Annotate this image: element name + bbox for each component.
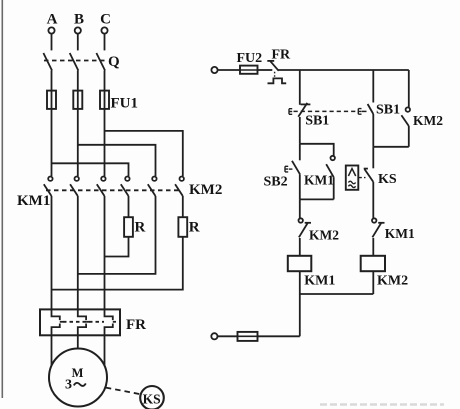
- wire B fuse down to contact 2: [77, 109, 79, 176]
- page left border line: [1, 0, 3, 398]
- svg-text:FU1: FU1: [111, 96, 139, 112]
- svg-text:FR: FR: [272, 48, 292, 63]
- wire down to KM2 interlock: [299, 199, 301, 218]
- FR linkage dashed: [63, 321, 104, 323]
- wire down to KS contact: [372, 147, 374, 169]
- svg-text:KM2: KM2: [413, 113, 443, 128]
- contactor KM1 main contact 3: [97, 177, 106, 197]
- rejoin wire SB1/KM2: [373, 146, 409, 148]
- contactor KM1 main contact 1: [44, 177, 53, 197]
- svg-text:KS: KS: [378, 172, 397, 187]
- wire bottom rail down: [299, 294, 301, 336]
- FR heater element B: [78, 309, 86, 335]
- switch Q linkage dashed: [44, 60, 106, 62]
- FR NC contact blade: [270, 61, 278, 71]
- wire R1 to phase C line: [105, 237, 129, 257]
- SB1 actuator E symbol: [289, 109, 292, 115]
- wire terminal to FU2: [218, 69, 240, 71]
- SB1 right actuator E symbol: [358, 109, 361, 115]
- resistor R2: [178, 217, 187, 237]
- wire into SB2: [299, 144, 301, 161]
- control bottom rail: [300, 293, 374, 295]
- FR heater element C: [105, 309, 113, 335]
- wire C fuse down to contact 3: [104, 109, 106, 176]
- switch Q pole B blade: [70, 53, 79, 71]
- contact KM1 NC circle: [372, 218, 376, 222]
- control left top terminal: [211, 67, 217, 73]
- contact KM2 NC blade: [299, 223, 308, 237]
- svg-text:Q: Q: [108, 54, 120, 70]
- wire A fuse down to contact 1: [51, 109, 53, 176]
- contact KM1 NC seat tick: [378, 222, 384, 224]
- wire fuse to bottom terminal: [218, 335, 238, 337]
- wire contact6 to resistor R2: [182, 196, 184, 217]
- FR heater element C tick: [113, 321, 116, 323]
- wire KM2 aux down: [408, 126, 410, 147]
- bottom wire to fuse: [258, 335, 300, 337]
- SB2 actuator E symbol: [285, 166, 288, 172]
- faint bottom watermark: [320, 403, 444, 406]
- contactor KM2 main contact 6: [175, 177, 184, 197]
- wire rail down to SB1 right: [372, 70, 374, 103]
- svg-text:KS: KS: [143, 391, 161, 406]
- svg-text:FU2: FU2: [237, 51, 263, 66]
- svg-text:KM2: KM2: [189, 182, 222, 198]
- contact KM1 NC blade: [372, 223, 381, 237]
- wire KM1 NC to coil: [372, 238, 374, 256]
- contactor KM2 main contact 4: [121, 177, 130, 197]
- contactor KM2 main contact 5: [148, 177, 157, 197]
- terminal A: [48, 27, 54, 33]
- svg-text:C: C: [100, 12, 111, 28]
- speed relay KS circle: [140, 386, 164, 409]
- KS box tilde 1: [348, 181, 355, 184]
- svg-text:3: 3: [65, 378, 72, 393]
- KS box tilde 2: [348, 185, 355, 188]
- FR actuator symbol: [268, 78, 287, 83]
- control top rail: [278, 69, 409, 71]
- wire B terminal to switch: [77, 34, 79, 51]
- fuse FU2: [240, 66, 258, 74]
- branch wire to KM1 aux top: [300, 144, 334, 156]
- wire contact2 down to FR: [77, 196, 79, 309]
- motor M circle: [49, 349, 107, 407]
- contactor KM1 main contact 2: [70, 177, 79, 197]
- contact KS blade: [365, 169, 374, 182]
- terminal B: [75, 27, 81, 33]
- wire C switch to fuse: [104, 71, 106, 91]
- FR heater element A: [52, 309, 60, 335]
- button SB1 NO blade: [368, 104, 374, 114]
- button SB1 NC seat tick: [301, 103, 311, 105]
- svg-text:R: R: [189, 220, 200, 236]
- contact KM2 NC seat tick: [305, 222, 311, 224]
- svg-text:M: M: [72, 366, 84, 380]
- svg-text:SB1: SB1: [305, 113, 329, 128]
- wire coil KM2 down: [372, 271, 374, 294]
- switch Q pole A blade: [43, 53, 52, 71]
- wire SB1 left down: [299, 117, 301, 144]
- coil KM2: [361, 256, 385, 271]
- wire SB2 down: [299, 174, 301, 199]
- resistor R1: [124, 217, 133, 237]
- svg-text:FR: FR: [126, 317, 146, 333]
- wire rail down to KM2 aux: [408, 70, 410, 107]
- wire contact5 to phase B line: [78, 196, 156, 274]
- wire rail down to SB1 left: [299, 70, 301, 105]
- svg-text:KM1: KM1: [304, 173, 334, 188]
- control bottom terminal: [211, 333, 217, 339]
- tilde of 3~: [74, 383, 86, 386]
- mechanical link motor to KS dashed: [106, 388, 141, 395]
- svg-text:KM1: KM1: [304, 274, 335, 289]
- svg-text:KM1: KM1: [385, 226, 415, 241]
- contact KM1 aux circle: [331, 156, 335, 160]
- svg-text:SB2: SB2: [264, 175, 288, 190]
- contact KM2 aux blade: [401, 115, 408, 126]
- wire FR to motor B: [77, 335, 79, 348]
- svg-text:R: R: [135, 220, 146, 236]
- crossover wire A to KM2 contact 4: [52, 163, 129, 176]
- button SB1 NC blade: [298, 103, 307, 117]
- FR actuator dotted link: [274, 72, 276, 78]
- main contacts linkage dashed: [46, 189, 180, 191]
- wire FR to motor A: [51, 335, 53, 365]
- wire A switch to fuse: [51, 71, 53, 91]
- terminal C: [101, 27, 107, 33]
- contact KM2 aux circle: [406, 107, 410, 111]
- wire contact1 down to FR: [51, 196, 53, 309]
- FR heater element B tick: [86, 321, 89, 323]
- SB1 right actuator dash: [362, 110, 367, 112]
- wire FR to motor C: [104, 335, 106, 365]
- fuse FU1 pole C: [100, 91, 109, 109]
- wire R2 to phase A line: [52, 237, 183, 290]
- SB2 actuator dash: [289, 168, 294, 170]
- wire B switch to fuse: [77, 71, 79, 91]
- svg-text:KM1: KM1: [17, 193, 50, 209]
- FR NC contact seat tick: [267, 60, 274, 62]
- thermal relay FR box: [40, 309, 120, 335]
- wire contact3 down to FR: [104, 196, 106, 309]
- KS box chevron: [348, 169, 355, 176]
- SB1 buttons linkage dashed: [294, 110, 358, 112]
- contact KM2 NC circle: [299, 218, 303, 222]
- wire C terminal to switch: [104, 34, 106, 51]
- svg-text:KM2: KM2: [377, 274, 408, 289]
- switch Q pole C blade: [96, 53, 105, 71]
- KS actuator dash: [358, 177, 365, 179]
- wire coil KM1 down: [299, 271, 301, 294]
- speed relay KS box: [346, 166, 359, 190]
- FR heater element A tick: [60, 321, 63, 323]
- wire FU2 to FR contact: [258, 69, 273, 71]
- crossover wire B to KM2 contact 5: [78, 145, 156, 176]
- contact KS tick: [364, 168, 368, 170]
- wire KM1 aux down: [333, 177, 335, 199]
- rejoin wire SB2/KM1: [300, 198, 334, 200]
- wire KM2 NC to coil: [299, 238, 301, 256]
- wire A terminal to switch: [51, 34, 53, 51]
- wire contact4 to resistor R1: [128, 196, 130, 217]
- bottom fuse: [238, 332, 258, 341]
- crossover wire C to KM2 contact 6: [105, 131, 183, 176]
- svg-text:SB1: SB1: [376, 103, 400, 118]
- svg-text:A: A: [47, 12, 58, 28]
- svg-text:B: B: [74, 12, 84, 28]
- wire SB1 right down: [372, 114, 374, 147]
- svg-text:KM2: KM2: [309, 228, 339, 243]
- fuse FU1 pole A: [47, 91, 56, 109]
- wire KS down to KM1 interlock: [372, 182, 374, 218]
- button SB2 blade: [292, 161, 300, 175]
- contact KM1 aux blade: [326, 164, 334, 177]
- fuse FU1 pole B: [73, 91, 82, 109]
- coil KM1: [288, 256, 312, 271]
